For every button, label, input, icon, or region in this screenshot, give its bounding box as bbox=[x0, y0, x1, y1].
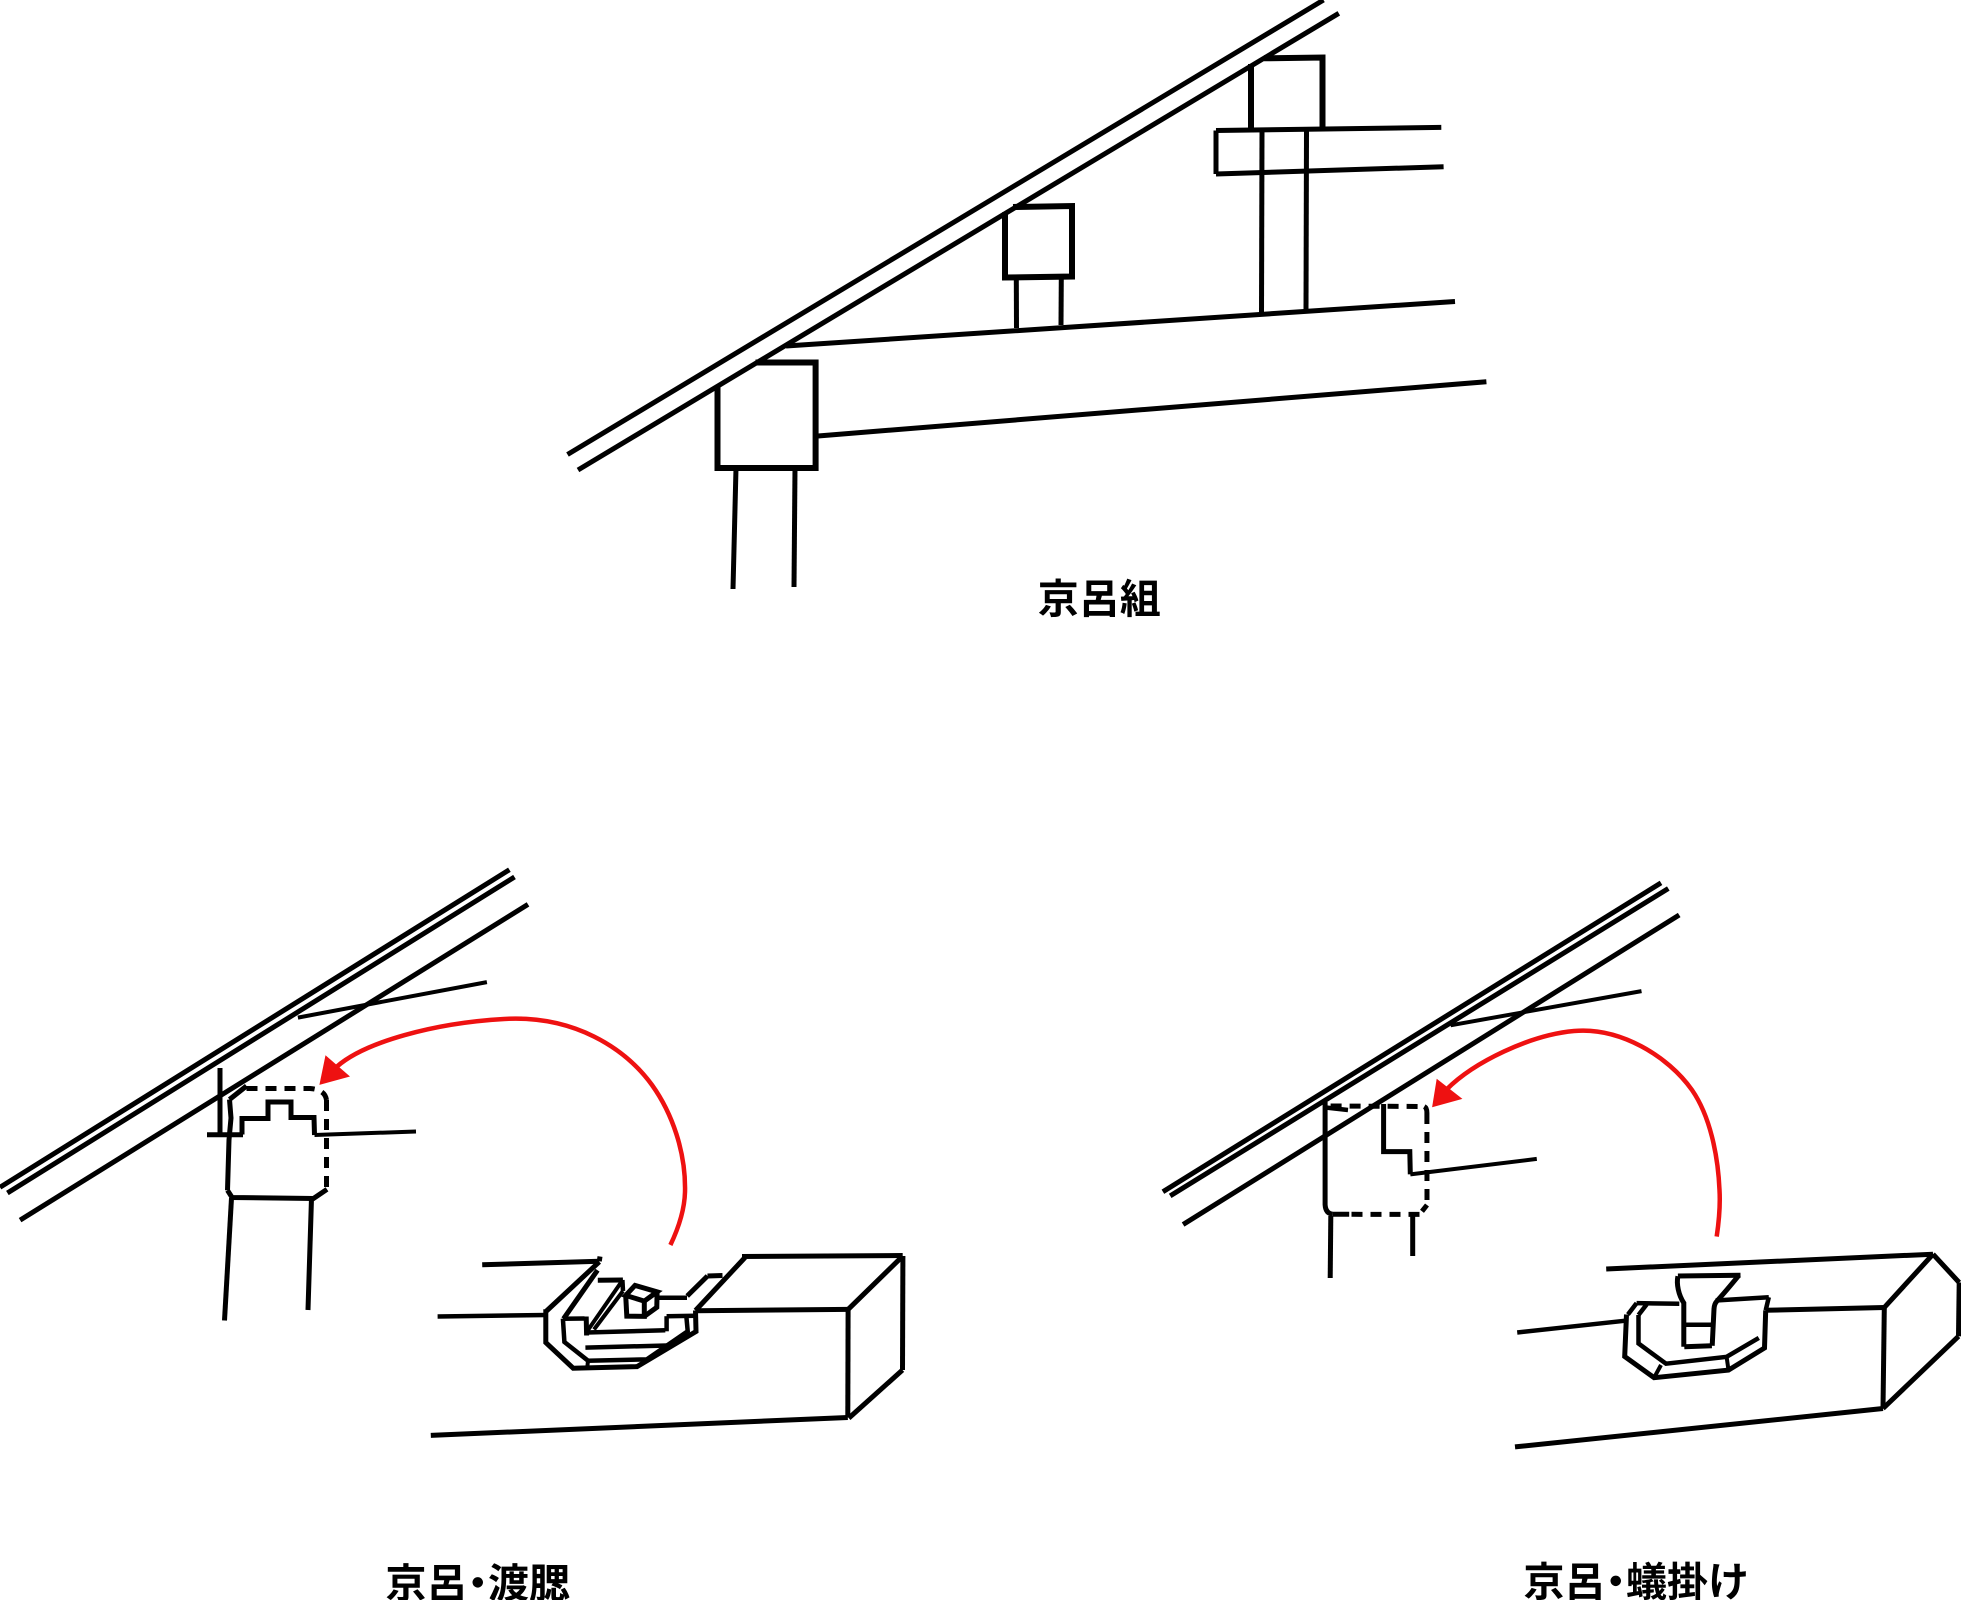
left beam: box top-left edge diagonal bbox=[696, 1258, 746, 1311]
right diagram: hidden outline (dashed) bottom + solid left part bbox=[1349, 1212, 1419, 1217]
right beam: rim connector tick left bbox=[1654, 1365, 1661, 1378]
left diagram: beam top edge crossing line bbox=[298, 982, 487, 1018]
left beam: left wall outer top diagonal bbox=[547, 1262, 600, 1311]
top diagram: middle post head (square block) bbox=[1005, 206, 1072, 278]
left beam: rim connector tick left bbox=[585, 1361, 590, 1369]
left beam: small cube top face bbox=[626, 1285, 657, 1301]
left diagram: hidden tenon outline (dashed) top bbox=[247, 1089, 327, 1101]
right diagram: rafter lower line bbox=[1170, 889, 1668, 1196]
right beam: dovetail tenon top edge bbox=[1678, 1273, 1741, 1279]
left beam: small cube right face bbox=[644, 1292, 657, 1317]
top diagram: rafter upper line bbox=[568, 0, 1324, 455]
right beam: box front-top edge bbox=[1766, 1308, 1885, 1311]
top diagram: right post left edge bbox=[1259, 131, 1265, 314]
left beam: bottom edge long line bbox=[431, 1418, 848, 1436]
left beam: left rail outer edge bbox=[587, 1280, 623, 1332]
right beam: right wall step edge bbox=[1766, 1297, 1769, 1310]
right beam: left wall outer top corner diagonal bbox=[1628, 1303, 1637, 1314]
left beam: left wall inner top diagonal bbox=[564, 1270, 598, 1319]
left beam: small cube front face bbox=[626, 1295, 645, 1316]
right beam: top-back edge line bbox=[1606, 1254, 1933, 1269]
left diagram: post left leg bbox=[225, 1198, 232, 1321]
left beam: recess floor back edge bbox=[659, 1295, 687, 1300]
left beam: rim front inner edge bbox=[585, 1346, 667, 1348]
top diagram: lower beam (girder) bottom line bbox=[818, 382, 1486, 436]
right diagram: post top corner solid tick bbox=[1326, 1108, 1349, 1111]
left diagram: red arrowhead bbox=[319, 1055, 350, 1085]
left beam: box front-right vertical edge bbox=[845, 1309, 850, 1417]
right diagram: post left edge with bottom corner curve bbox=[1325, 1102, 1333, 1214]
left beam: box top face right edge bbox=[848, 1256, 902, 1309]
right diagram: ari-kake notch profile (solid step) bbox=[1384, 1104, 1411, 1174]
right diagram: girder top edge line (parallel below rafter) bbox=[1183, 915, 1679, 1225]
right beam: box end face right edge bbox=[1956, 1283, 1961, 1337]
left diagram: girder top edge line (parallel below rafter) bbox=[20, 904, 528, 1220]
left beam: front-top edge line extending left bbox=[438, 1315, 547, 1317]
top diagram: right post right edge bbox=[1304, 131, 1310, 311]
right beam: box top face right edge bbox=[1884, 1254, 1933, 1307]
left diagram: girder end face vertical bbox=[218, 1068, 223, 1135]
right diagram: hidden dovetail outline (dashed) top bbox=[1331, 1104, 1425, 1110]
right diagram: hidden outline (dashed) right side bbox=[1424, 1113, 1429, 1205]
right beam: box front-right vertical edge bbox=[1883, 1308, 1884, 1409]
left beam: box front-top edge bbox=[696, 1309, 849, 1310]
left diagram: red arrow arc bbox=[337, 1019, 685, 1245]
left beam: recess floor front edge bbox=[587, 1330, 665, 1332]
right beam: front cutout outer outline bbox=[1625, 1310, 1766, 1377]
right beam: front cutout inner rim outline bbox=[1639, 1315, 1759, 1364]
right diagram: post right leg bbox=[1410, 1215, 1415, 1256]
right diagram: post bottom solid segment bbox=[1333, 1212, 1350, 1217]
right beam: dovetail tenon right edge (concave curve) bbox=[1712, 1275, 1739, 1346]
left beam: rim step top edge bbox=[667, 1313, 696, 1318]
right beam: recess back edge right segment bbox=[1716, 1297, 1769, 1300]
top diagram: right post head (square block) bbox=[1251, 58, 1323, 131]
right diagram: pointer line to the right bbox=[1410, 1159, 1537, 1175]
left diagram: girder end face bottom tick bbox=[207, 1132, 243, 1137]
right beam: front-top edge line extending left bbox=[1517, 1321, 1625, 1333]
left beam: box end face right edge bbox=[900, 1256, 905, 1370]
label: Kyoro ari-kake bbox=[1525, 1562, 1746, 1600]
left diagram: post bottom edge with chamfers bbox=[228, 1189, 328, 1198]
left diagram: hidden tenon outline (dashed) right side bbox=[324, 1100, 329, 1188]
right diagram: red arrow arc bbox=[1447, 1031, 1720, 1237]
left beam: shelf edge between wall and rail bbox=[563, 1316, 585, 1321]
left beam: left rail end face bar bbox=[584, 1317, 589, 1336]
right beam: left wall inner top diagonal bbox=[1639, 1304, 1647, 1315]
right beam: box end face bottom edge bbox=[1883, 1336, 1959, 1408]
right beam: recess back edge left segment bbox=[1637, 1301, 1680, 1306]
top diagram: middle post right leg bbox=[1059, 277, 1064, 326]
top diagram: upper beam (girder) top line bbox=[786, 302, 1455, 347]
top diagram: purlin beam left end edge bbox=[1214, 131, 1219, 175]
left diagram: rafter lower line bbox=[7, 877, 514, 1193]
top diagram: middle post left leg bbox=[1014, 277, 1019, 328]
top diagram: rafter lower line bbox=[578, 13, 1339, 470]
left beam: box top-back edge bbox=[742, 1256, 903, 1257]
left beam: socket corner tick bbox=[597, 1257, 603, 1262]
left beam: rim step vertical bbox=[664, 1316, 669, 1331]
right beam: dovetail neck front top tick bbox=[1686, 1322, 1712, 1327]
left beam: right rail outer edge bbox=[687, 1276, 707, 1296]
right beam: bottom edge long line bbox=[1515, 1409, 1883, 1447]
right diagram: rafter upper line bbox=[1163, 883, 1661, 1192]
right beam: dovetail tenon left edge bbox=[1677, 1276, 1683, 1347]
left beam: box end face bottom edge bbox=[849, 1370, 903, 1418]
left diagram: post top chamfer (parallel to rafter) bbox=[230, 1086, 247, 1100]
label: Kyoro-gumi bbox=[1039, 579, 1160, 618]
right diagram: red arrowhead bbox=[1432, 1079, 1462, 1108]
left diagram: watari-ago notch profile on post top bbox=[242, 1102, 315, 1135]
left diagram: post right leg bbox=[308, 1198, 312, 1310]
left beam: step tick between wall and rail bbox=[598, 1278, 623, 1283]
left beam: rim connector tick right bbox=[638, 1359, 647, 1366]
right beam: dovetail neck front bottom edge bbox=[1684, 1343, 1712, 1349]
left beam: right rail top tick bbox=[708, 1273, 723, 1279]
left diagram: rafter upper line bbox=[0, 870, 509, 1188]
left beam: top-back edge line bbox=[482, 1261, 599, 1265]
top diagram: purlin beam bottom line bbox=[1216, 167, 1444, 174]
left beam: left rail inner edge bbox=[594, 1291, 623, 1330]
left diagram: post left edge bbox=[228, 1100, 232, 1191]
left diagram: pointer line to the right bbox=[315, 1132, 417, 1136]
right diagram: hidden outline (dashed) top right corner bbox=[1424, 1107, 1427, 1114]
top diagram: left post left leg bbox=[733, 468, 736, 589]
left beam: front cutout inner rim outline bbox=[563, 1317, 688, 1361]
right diagram: hidden outline (dashed) bottom corner cut bbox=[1420, 1205, 1428, 1214]
top diagram: left post right leg bbox=[794, 468, 795, 587]
left beam: left rail right end tick bbox=[620, 1280, 625, 1291]
label: Kyoro watari-ago bbox=[387, 1563, 570, 1600]
right diagram: beam top edge crossing line bbox=[1451, 991, 1642, 1025]
top diagram: purlin beam top line bbox=[1216, 127, 1441, 130]
right beam: rim connector tick right bbox=[1727, 1357, 1729, 1370]
left beam: front cutout outer outline bbox=[546, 1309, 696, 1368]
right beam: box end face top edge bbox=[1933, 1254, 1959, 1282]
top diagram: left post head (square block) bbox=[718, 363, 816, 469]
right diagram: post left leg bbox=[1328, 1216, 1334, 1278]
